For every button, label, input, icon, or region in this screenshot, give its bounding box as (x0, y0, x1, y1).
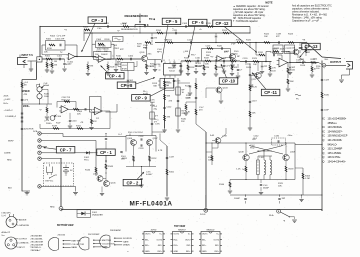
ic top view DIP3 (199, 229, 222, 253)
capacitor C135 left (120, 144, 126, 153)
capacitor C101 series (57, 55, 63, 60)
svg-text:Q: Q (323, 161, 325, 164)
svg-text:C115: C115 (176, 80, 182, 82)
svg-text:C137: C137 (169, 156, 175, 158)
svg-text:unless otherwise indicated.: unless otherwise indicated. (292, 10, 320, 13)
resistor R108 drop (106, 62, 116, 76)
svg-text:GATE: GATE (123, 240, 129, 243)
svg-text:BASE: BASE (72, 246, 78, 249)
svg-text:2SC1815/GR: 2SC1815/GR (31, 241, 44, 243)
svg-text:0.0047: 0.0047 (146, 174, 153, 176)
lfo mid cap (46, 102, 62, 126)
capacitor C117 clock (185, 97, 197, 99)
svg-text:C143: C143 (72, 120, 78, 122)
svg-text:R129: R129 (252, 58, 258, 60)
svg-text:IC: IC (323, 118, 326, 121)
label R104 10K (50, 35, 66, 37)
svg-text:10K: 10K (278, 186, 282, 188)
svg-text:102 L2544BP: 102 L2544BP (328, 148, 343, 151)
resistor R144 (85, 168, 100, 177)
label out row vals (237, 56, 252, 69)
svg-text:BLK: BLK (8, 187, 13, 189)
svg-text:47K/2: 47K/2 (114, 48, 120, 50)
svg-text:C125: C125 (286, 48, 292, 50)
svg-text:10/16: 10/16 (296, 62, 302, 64)
svg-text:1N4002/BR: 1N4002/BR (92, 215, 103, 217)
wire osc top feed (130, 102, 165, 136)
svg-text:REGENERATION: REGENERATION (125, 14, 148, 18)
capacitor C134 drop (139, 179, 143, 188)
svg-text:Resistors : 1/4W , ±5% rating: Resistors : 1/4W , ±5% rating (292, 16, 322, 19)
wire bbd drop vertical (166, 146, 168, 196)
svg-text:P•101: P•101 (200, 214, 206, 216)
capacitor C140 hang (234, 195, 247, 204)
svg-text:10P: 10P (286, 51, 290, 53)
svg-text:capacitors are above 50V ratin: capacitors are above 50V rating. (233, 8, 266, 11)
svg-text:C104: C104 (96, 39, 102, 41)
svg-text:106 9•7/5A•: 106 9•7/5A• (328, 156, 341, 159)
wire left rail join (22, 132, 40, 135)
svg-text:101 2SC945•: 101 2SC945• (328, 139, 343, 142)
svg-text:47K: 47K (167, 116, 171, 118)
svg-text:CP -12: CP -12 (216, 21, 230, 26)
capacitor C103 drop (55, 54, 57, 58)
svg-text:100RB: 100RB (4, 153, 11, 155)
output jack extra (344, 58, 345, 60)
capacitor C114 on bus (187, 39, 193, 43)
svg-text:220K: 220K (218, 67, 223, 69)
label C139 (276, 34, 282, 38)
mv right column2 (295, 168, 311, 195)
svg-text:R1•1 C1•2 R1•2: R1•1 C1•2 R1•2 (128, 132, 144, 134)
resistor R149 row2 (52, 125, 59, 129)
svg-text:IN2-: IN2- (187, 245, 191, 247)
svg-text:10K: 10K (205, 63, 209, 65)
wire mv rail left (219, 180, 232, 194)
label misc left a (4, 98, 12, 101)
transistor type list (31, 236, 44, 253)
feedback lfo box (57, 101, 76, 107)
svg-text:•1•: •1• (199, 29, 202, 31)
svg-text:T•0• 10K: T•0• 10K (98, 45, 107, 47)
svg-text:2SC1000/BL: 2SC1000/BL (31, 239, 44, 241)
svg-text:△0.022: △0.022 (4, 98, 12, 101)
callout CP-10 arrow (221, 64, 227, 78)
svg-text:RED.: RED. (50, 207, 55, 209)
wire diode rail taps (77, 209, 91, 211)
label W+A clock (154, 118, 159, 124)
label left col r1 (24, 81, 29, 84)
wire Q101 collector up (146, 42, 147, 56)
wire clock diag (196, 124, 206, 132)
label W101 (269, 215, 274, 217)
labels row center2 (137, 44, 163, 54)
label EXT.DC (46, 180, 54, 182)
wire Q101 emitter (146, 61, 148, 64)
svg-text:100K: 100K (44, 96, 49, 98)
svg-text:101+102•4558/5•: 101+102•4558/5• (328, 118, 347, 121)
wire right chain vertical (249, 64, 251, 126)
wire mixer out (289, 62, 318, 63)
svg-text:(△••): (△••) (2, 214, 7, 217)
svg-text:4.7K: 4.7K (150, 66, 155, 68)
svg-text:10K: 10K (253, 64, 257, 66)
svg-text:2SC1815BP: 2SC1815BP (88, 234, 100, 236)
svg-text:TO ⊕: TO ⊕ (149, 18, 156, 21)
callout CP-11 (261, 89, 280, 95)
callout CP-11 arrow (252, 73, 266, 90)
capacitor C126 series (299, 59, 306, 67)
svg-text:45•8D: 45•8D (151, 229, 157, 231)
svg-text:IN2-: IN2- (158, 245, 162, 247)
IC105 clock driver box (158, 79, 176, 89)
potentiometer VR2 REGENERATION (135, 14, 145, 28)
svg-text:COLLECTOR: COLLECTOR (102, 243, 115, 245)
note block left column (233, 5, 270, 23)
svg-text:Q: Q (323, 152, 325, 155)
resistor R113a chain (164, 81, 172, 87)
svg-text:47P: 47P (66, 64, 70, 66)
wire mv bottom link (258, 151, 265, 152)
node W junction (277, 209, 281, 213)
callout CP-9 arrow (150, 88, 166, 96)
mv top rail (212, 142, 295, 144)
wire q110 wires (288, 52, 298, 63)
svg-text:IN1+: IN1+ (174, 245, 179, 247)
svg-text:100P: 100P (324, 109, 329, 111)
svg-text:R132: R132 (290, 70, 296, 72)
svg-text:4558•L••: 4558•L•• (328, 122, 337, 125)
label mv top (252, 135, 293, 141)
svg-text:47K: 47K (93, 121, 97, 123)
callout CP-3 (88, 17, 107, 23)
svg-text:R124: R124 (222, 30, 228, 32)
capacitor C119 chain (249, 100, 258, 102)
resistor R131 cluster (258, 52, 265, 56)
wire osc down b (149, 146, 151, 156)
callout CP-10 (219, 78, 238, 84)
callout CP-6 (188, 19, 207, 25)
label D102 (84, 157, 90, 161)
svg-text:22K: 22K (181, 121, 185, 123)
svg-text:100K: 100K (186, 97, 191, 99)
op-amp IC104b LFO (90, 97, 104, 121)
wire bbd col top (160, 134, 167, 147)
resistor R115 on top bus (206, 23, 213, 27)
resistor R107 on top bus (122, 23, 129, 27)
ground switch (292, 217, 297, 223)
label CBA (121, 23, 127, 26)
svg-text:5600P: 5600P (263, 188, 270, 190)
op-amp IC104a LFO (56, 106, 71, 119)
svg-text:OUTPUT: OUTPUT (330, 60, 341, 64)
svg-text:R155: R155 (169, 171, 175, 173)
svg-text:CP - 3: CP - 3 (91, 18, 103, 23)
wire bbd col caps (165, 156, 175, 200)
svg-text:C116: C116 (206, 45, 212, 47)
resistor R111 drop (86, 62, 94, 76)
label LED legend title (2, 212, 12, 218)
mid cluster parts (184, 102, 196, 115)
svg-text:NP•1: NP•1 (157, 51, 163, 53)
svg-text:4/0A: 4/0A (165, 84, 170, 87)
ic top view DIP1 (142, 229, 165, 253)
svg-text:Capacitance in μF , p = pF: Capacitance in μF , p = pF (292, 19, 320, 22)
svg-text:2SC: 2SC (148, 54, 153, 56)
svg-text:Q102: Q102 (224, 51, 230, 53)
capacitor C105 on top bus (104, 23, 110, 28)
wire q pair down (100, 187, 104, 196)
svg-text:R131: R131 (258, 52, 264, 54)
wire mv right vert (294, 143, 296, 180)
svg-text:GND: GND (145, 251, 150, 253)
wire mid drop R117 (214, 61, 223, 76)
svg-text:200K⋅⋅: 200K⋅⋅ (23, 105, 30, 108)
svg-text:C132: C132 (139, 136, 145, 138)
svg-text:IN1-: IN1- (202, 239, 206, 241)
label PUR/DCA (29, 129, 38, 134)
wire q108 up (245, 142, 246, 154)
capacitor C133 between (139, 144, 145, 150)
node top bus regen (139, 26, 140, 27)
wire osc left vertical (205, 132, 207, 208)
resistor R129 series (252, 58, 259, 66)
wire lfo row (22, 103, 52, 104)
label OUTPUT pin (15, 238, 28, 240)
svg-text:22K: 22K (54, 64, 58, 66)
resistor R133 series (311, 59, 317, 63)
resistor R124 on fb bus (222, 30, 229, 34)
svg-text:SOURCE: SOURCE (123, 238, 133, 240)
svg-text:R125: R125 (246, 39, 252, 41)
svg-text:IC104: IC104 (56, 116, 62, 118)
extra gnd top mid (160, 42, 176, 67)
svg-text:C105: C105 (104, 23, 110, 25)
svg-text:470K: 470K (150, 105, 155, 107)
svg-text:CP - 9: CP - 9 (135, 95, 147, 100)
svg-text:T : TANTALUM capacitor: T : TANTALUM capacitor (233, 20, 258, 23)
wire q103 wires (206, 88, 223, 103)
label OUTPUT (330, 60, 341, 64)
transistor Q107 (147, 138, 159, 146)
node top bus left (39, 26, 40, 27)
svg-text:C129: C129 (324, 79, 330, 81)
svg-text:W+△: W+△ (143, 90, 148, 93)
wire fb1 left (42, 45, 67, 55)
label 10K(B) (144, 24, 149, 27)
capacitor C197 drop (0, 0, 1, 1)
node output rail (319, 63, 326, 68)
wire output jack ground (339, 75, 349, 82)
bias chain2 cap (169, 100, 180, 102)
labels top bus extra (97, 28, 202, 33)
svg-text:Q101: Q101 (140, 52, 146, 54)
wire mid drop R116 (186, 61, 195, 76)
node fb2 bus (91, 32, 92, 44)
transistor bottom view Q-c (100, 229, 133, 248)
svg-text:ACA••CP: ACA••CP (2, 231, 11, 234)
svg-text:capacitors, unless otherwise n: capacitors, unless otherwise named, (292, 7, 329, 10)
feedback network box C104/R109 (96, 39, 112, 50)
svg-text:••: •• (64, 105, 66, 107)
node red junction (59, 207, 63, 211)
svg-text:470K: 470K (47, 48, 52, 50)
wire y195 rail (230, 193, 323, 196)
label RED bottom (50, 207, 55, 209)
resistor R127 chain (249, 111, 256, 117)
svg-text:L•AC/DPL: L•AC/DPL (2, 212, 12, 215)
svg-text:10K: 10K (44, 52, 48, 54)
bias chain2 box1 (176, 87, 185, 95)
wire bias vertical (164, 78, 166, 128)
callout CP-2 arrow (137, 172, 144, 179)
capacitor C151 pot drop (151, 33, 158, 43)
label cluster q101 (150, 64, 155, 68)
label REGENERATION (pot) (125, 14, 148, 18)
label TOP VIEW (174, 226, 186, 228)
callout CP-12 (213, 20, 232, 26)
svg-text:W+△: W+△ (154, 118, 159, 121)
label MF-FL0401A (130, 201, 173, 208)
svg-text:IN2+: IN2+ (186, 251, 191, 253)
svg-text:Q: Q (323, 156, 325, 159)
resistor R151 osc (122, 156, 134, 162)
svg-text:10K: 10K (117, 61, 121, 63)
svg-text:C142 7/8: C142 7/8 (62, 97, 71, 99)
wire bus3 up stub (215, 33, 217, 43)
svg-text:BOTTOM VIEW: BOTTOM VIEW (57, 225, 74, 227)
svg-text:MN3•07: MN3•07 (178, 229, 186, 231)
capacitor C106 series (128, 55, 134, 60)
label left col r2 (24, 94, 28, 96)
diode D102 (84, 151, 93, 154)
svg-text:R116: R116 (190, 67, 196, 69)
svg-text:•1•: •1• (39, 110, 42, 112)
mv dashed cap box (272, 136, 286, 145)
label 2SK30 pkg (127, 252, 129, 254)
pot area extra (37, 84, 50, 87)
capacitor C118 chain (249, 73, 258, 75)
callout CP-1 (97, 149, 116, 155)
wire top bus drop right (249, 27, 250, 34)
svg-text:47P: 47P (120, 49, 124, 51)
svg-text:△104: △104 (183, 50, 189, 53)
wire mid drop C109 (194, 61, 204, 74)
ground bias chain (162, 128, 166, 132)
right col x250 topstub (249, 42, 250, 48)
svg-text:945/•LC•: 945/•LC• (328, 143, 338, 146)
label P101 (200, 214, 206, 216)
callout CP-1 arrow (105, 155, 107, 162)
capacitor C150 drop (288, 63, 296, 75)
wire lfo row2 drop (104, 111, 110, 129)
parts list table (323, 118, 348, 164)
svg-text:2SC945/BR: 2SC945/BR (31, 236, 43, 238)
wire input node down (36, 62, 38, 80)
svg-text:22K: 22K (77, 113, 81, 115)
wire BBD out row (181, 60, 240, 62)
wire pin4 right (41, 152, 97, 154)
node mixer in (249, 61, 267, 87)
callout CP-5 arrow (161, 25, 168, 63)
svg-text:R107: R107 (122, 23, 128, 25)
wire input row 1 (42, 58, 65, 60)
connector pin P2 (38, 139, 41, 142)
svg-text:R150: R150 (76, 125, 82, 127)
svg-text:REGENERATION: REGENERATION (121, 28, 138, 31)
resistor R125 on bus (236, 39, 243, 43)
transistor Q104 (93, 173, 103, 181)
label WVN (8, 141, 14, 143)
svg-text:OUT2: OUT2 (213, 239, 219, 241)
ext dc jack symbol (47, 164, 53, 175)
wire q104 q105 link (103, 173, 106, 180)
label bias vals (152, 83, 158, 110)
svg-text:IC: IC (323, 130, 326, 133)
wire bottom rail (61, 210, 322, 212)
svg-text:capacitors are above 50V ratin: capacitors are above 50V rating. (233, 14, 266, 17)
wire pin1 right (41, 134, 126, 137)
dense block A box (121, 63, 134, 71)
svg-text:IN1+: IN1+ (145, 245, 150, 247)
label 200K (23, 105, 30, 108)
bias chain2 branch (178, 83, 193, 96)
resistor R161 drop (230, 61, 238, 76)
svg-text:C112: C112 (167, 106, 173, 108)
svg-text:▲ CERAMIC capacitor : All cer: ▲ CERAMIC capacitor : All ceramic (233, 5, 270, 8)
svg-text:104 MN3207•: 104 MN3207• (328, 130, 343, 133)
svg-text:C128: C128 (290, 47, 296, 49)
connector pin P5 (38, 157, 41, 160)
svg-text:MN3102: MN3102 (207, 229, 216, 231)
label row values 1 (44, 52, 63, 54)
svg-text:Q105: Q105 (111, 182, 117, 184)
wire lfo out (106, 104, 118, 112)
callout CP-13 arrow (300, 50, 307, 58)
svg-text:OUT1: OUT1 (145, 234, 151, 236)
svg-text:OUT1: OUT1 (202, 234, 208, 236)
svg-text:CP - 8: CP - 8 (121, 83, 133, 88)
svg-text:56K: 56K (153, 85, 157, 87)
svg-text:Q: Q (323, 139, 325, 142)
wire speed down (40, 94, 50, 104)
svg-text:47P: 47P (264, 66, 268, 68)
svg-text:R160: R160 (219, 184, 225, 186)
svg-text:56K: 56K (167, 95, 171, 97)
svg-text:CP - 5: CP - 5 (166, 19, 178, 24)
transistor bottom view Q-b (79, 234, 115, 250)
wire lfo row2 (40, 128, 110, 130)
svg-text:2SK30ATM: 2SK30ATM (110, 229, 121, 232)
svg-text:C101: C101 (57, 55, 63, 57)
mix node (215, 60, 216, 61)
label ANODE (16, 219, 28, 222)
LED legend circle (6, 214, 17, 228)
svg-text:INPUT T•S: INPUT T•S (22, 55, 34, 57)
svg-text:TOP VIEW: TOP VIEW (174, 226, 186, 228)
svg-text:47K: 47K (206, 67, 210, 69)
capacitor C147 drop (172, 61, 183, 73)
transistor Q109 (283, 151, 296, 160)
svg-text:••: •• (127, 252, 129, 254)
wire coil top (258, 151, 272, 156)
wire q109 up (285, 142, 286, 154)
svg-text:47K: 47K (274, 51, 278, 53)
resistor R113b chain (164, 94, 171, 100)
resistor R103 on fb bus (83, 27, 90, 33)
capacitor C139 on bus (279, 41, 280, 43)
node mv rail joins (245, 179, 286, 180)
